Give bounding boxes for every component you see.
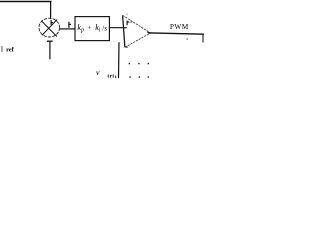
svg-text:s: s <box>104 24 107 32</box>
wire feedback vertical drop into summer <box>50 2 52 19</box>
sign mark on error wire <box>69 22 71 28</box>
comparator bottom-left foot <box>125 46 128 48</box>
wire V_tri into comparator <box>118 42 121 78</box>
svg-text:i: i <box>99 28 101 34</box>
comparator triangle top edge <box>123 15 151 33</box>
wire feedback top horizontal <box>0 1 52 3</box>
comparator triangle bottom edge <box>125 33 150 47</box>
small tick after tri <box>115 76 116 79</box>
dots row 2 <box>129 76 130 77</box>
wire summer to PI block <box>60 28 75 30</box>
summing junction X arm 1 <box>41 21 57 37</box>
speck above triangle corner <box>127 14 128 15</box>
svg-text:I: I <box>1 45 4 53</box>
PI controller block <box>75 17 109 41</box>
sign mark at feedback input <box>51 20 53 25</box>
svg-text:tri: tri <box>107 73 114 79</box>
svg-text:V: V <box>96 71 100 77</box>
summing junction X arm 2 <box>42 20 57 36</box>
svg-text:ref: ref <box>6 46 14 53</box>
comparator triangle left edge <box>123 15 125 47</box>
svg-text:PWM: PWM <box>170 22 189 31</box>
wire I_ref vertical below summer <box>49 41 51 59</box>
plus sign comparator input <box>127 21 129 26</box>
speck <box>187 39 188 40</box>
comparator apex tip <box>148 32 151 33</box>
wire PI block to comparator <box>110 27 127 29</box>
svg-text:+: + <box>87 23 91 32</box>
wire PWM output <box>150 33 204 34</box>
dots row 1 <box>129 63 130 64</box>
svg-text:p: p <box>80 28 84 34</box>
wire output corner down <box>202 34 204 42</box>
plus bar on I_ref input <box>47 40 53 42</box>
summing junction circle <box>39 18 60 37</box>
